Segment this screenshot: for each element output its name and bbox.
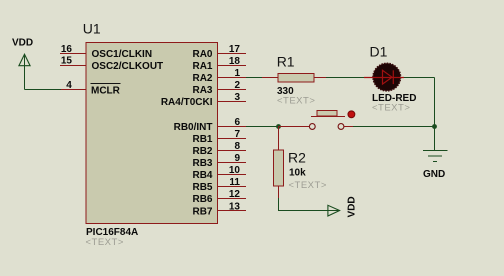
svg-text:15: 15 (61, 56, 73, 67)
svg-text:RB1: RB1 (192, 134, 212, 145)
wire RA2 to R1 (net RA2) (246, 77, 264, 79)
pin 8 RB2 (192, 141, 246, 157)
wire VDD to MCLR pin 4 (25, 66, 62, 90)
push button right pin (344, 126, 353, 128)
R1 left pin (262, 77, 278, 79)
svg-text:GND: GND (423, 169, 445, 180)
junction at button net and GND wire (432, 124, 437, 129)
pin 16 OSC1/CLKIN (60, 44, 152, 60)
svg-text:RB6: RB6 (192, 194, 212, 205)
wire button to GND junction (353, 126, 435, 128)
R1 value 330 (277, 86, 294, 97)
pin 13 RB7 (192, 201, 246, 217)
push button (309, 110, 354, 129)
svg-text:13: 13 (229, 201, 241, 212)
resistor R2 body (274, 150, 284, 186)
svg-text:2: 2 (234, 80, 240, 91)
svg-text:RB3: RB3 (192, 158, 212, 169)
svg-text:RA3: RA3 (192, 85, 212, 96)
svg-text:7: 7 (234, 129, 240, 140)
svg-text:RB2: RB2 (192, 146, 212, 157)
svg-text:10k: 10k (289, 168, 306, 179)
R1 placeholder text (277, 96, 315, 107)
svg-text:U1: U1 (83, 21, 101, 37)
R2 placeholder text (289, 180, 327, 191)
power symbol VDD (left) (12, 38, 33, 66)
svg-text:RA2: RA2 (192, 73, 212, 84)
power symbol VDD (right) (328, 197, 355, 218)
R2 value 10k (289, 168, 306, 179)
svg-text:<TEXT>: <TEXT> (372, 103, 410, 114)
ground symbol GND (423, 151, 448, 180)
svg-text:4: 4 (66, 80, 72, 91)
pin 18 RA1 (192, 56, 246, 72)
pin 4 MCLR (60, 80, 121, 96)
pin 7 RB1 (192, 129, 246, 145)
svg-text:MCLR: MCLR (91, 85, 121, 96)
svg-text:OSC1/CLKIN: OSC1/CLKIN (92, 49, 153, 60)
svg-text:<TEXT>: <TEXT> (277, 96, 315, 107)
svg-text:RB7: RB7 (192, 206, 212, 217)
svg-text:11: 11 (229, 177, 240, 188)
svg-text:<TEXT>: <TEXT> (289, 180, 327, 191)
svg-text:9: 9 (234, 153, 240, 164)
svg-text:18: 18 (229, 56, 241, 67)
svg-text:OSC2/CLKOUT: OSC2/CLKOUT (92, 61, 164, 72)
svg-text:10: 10 (229, 165, 241, 176)
resistor R1 body (278, 74, 314, 82)
svg-text:17: 17 (229, 44, 241, 55)
pin 15 OSC2/CLKOUT (60, 56, 163, 73)
svg-text:RA4/T0CKI: RA4/T0CKI (161, 97, 213, 108)
svg-text:VDD: VDD (12, 38, 33, 49)
svg-text:1: 1 (234, 68, 240, 79)
push button left pin (279, 126, 310, 128)
svg-text:RA1: RA1 (192, 61, 212, 72)
svg-text:16: 16 (61, 44, 73, 55)
svg-text:12: 12 (229, 189, 241, 200)
R2 top pin (from junction) (278, 127, 280, 151)
pin 3 RA4/T0CKI (161, 92, 246, 108)
svg-text:6: 6 (234, 117, 240, 128)
wire R2 to VDD (right) (279, 198, 328, 211)
R2 refdes label (288, 150, 306, 166)
svg-text:8: 8 (234, 141, 240, 152)
D1 placeholder text (372, 103, 410, 114)
svg-text:RB0/INT: RB0/INT (174, 122, 213, 133)
wire RB0 to junction (246, 126, 279, 128)
junction node RB0 / R2 / button (276, 124, 281, 129)
chip U1 body (86, 43, 218, 224)
pin 17 RA0 (192, 44, 246, 60)
svg-text:R1: R1 (277, 54, 295, 70)
pin 11 RB5 (192, 177, 246, 193)
pin 2 RA3 (192, 80, 246, 96)
R2 bottom pin (278, 186, 280, 198)
svg-text:RB5: RB5 (192, 182, 212, 193)
svg-text:R2: R2 (288, 150, 306, 166)
pin 6 RB0/INT (174, 117, 246, 133)
svg-text:RB4: RB4 (192, 170, 212, 181)
U1 refdes label (83, 21, 101, 37)
D1 refdes label (370, 44, 388, 60)
svg-text:3: 3 (234, 92, 240, 103)
pin 9 RB3 (192, 153, 246, 169)
svg-text:RA0: RA0 (192, 49, 212, 60)
pin 12 RB6 (192, 189, 246, 205)
svg-text:<TEXT>: <TEXT> (86, 237, 124, 248)
pin 10 RB4 (192, 165, 246, 181)
U1 value label PIC16F84A (86, 227, 138, 238)
svg-text:D1: D1 (370, 44, 388, 60)
LED D1 (364, 63, 404, 91)
D1 value LED-RED (372, 93, 416, 104)
pin 1 RA2 (192, 68, 246, 84)
R1 refdes label (277, 54, 295, 70)
R1 right pin (314, 77, 326, 79)
wire D1 to corner and down to GND net (404, 78, 435, 151)
wire R1 to D1 (326, 77, 366, 79)
U1 placeholder text (86, 237, 124, 248)
